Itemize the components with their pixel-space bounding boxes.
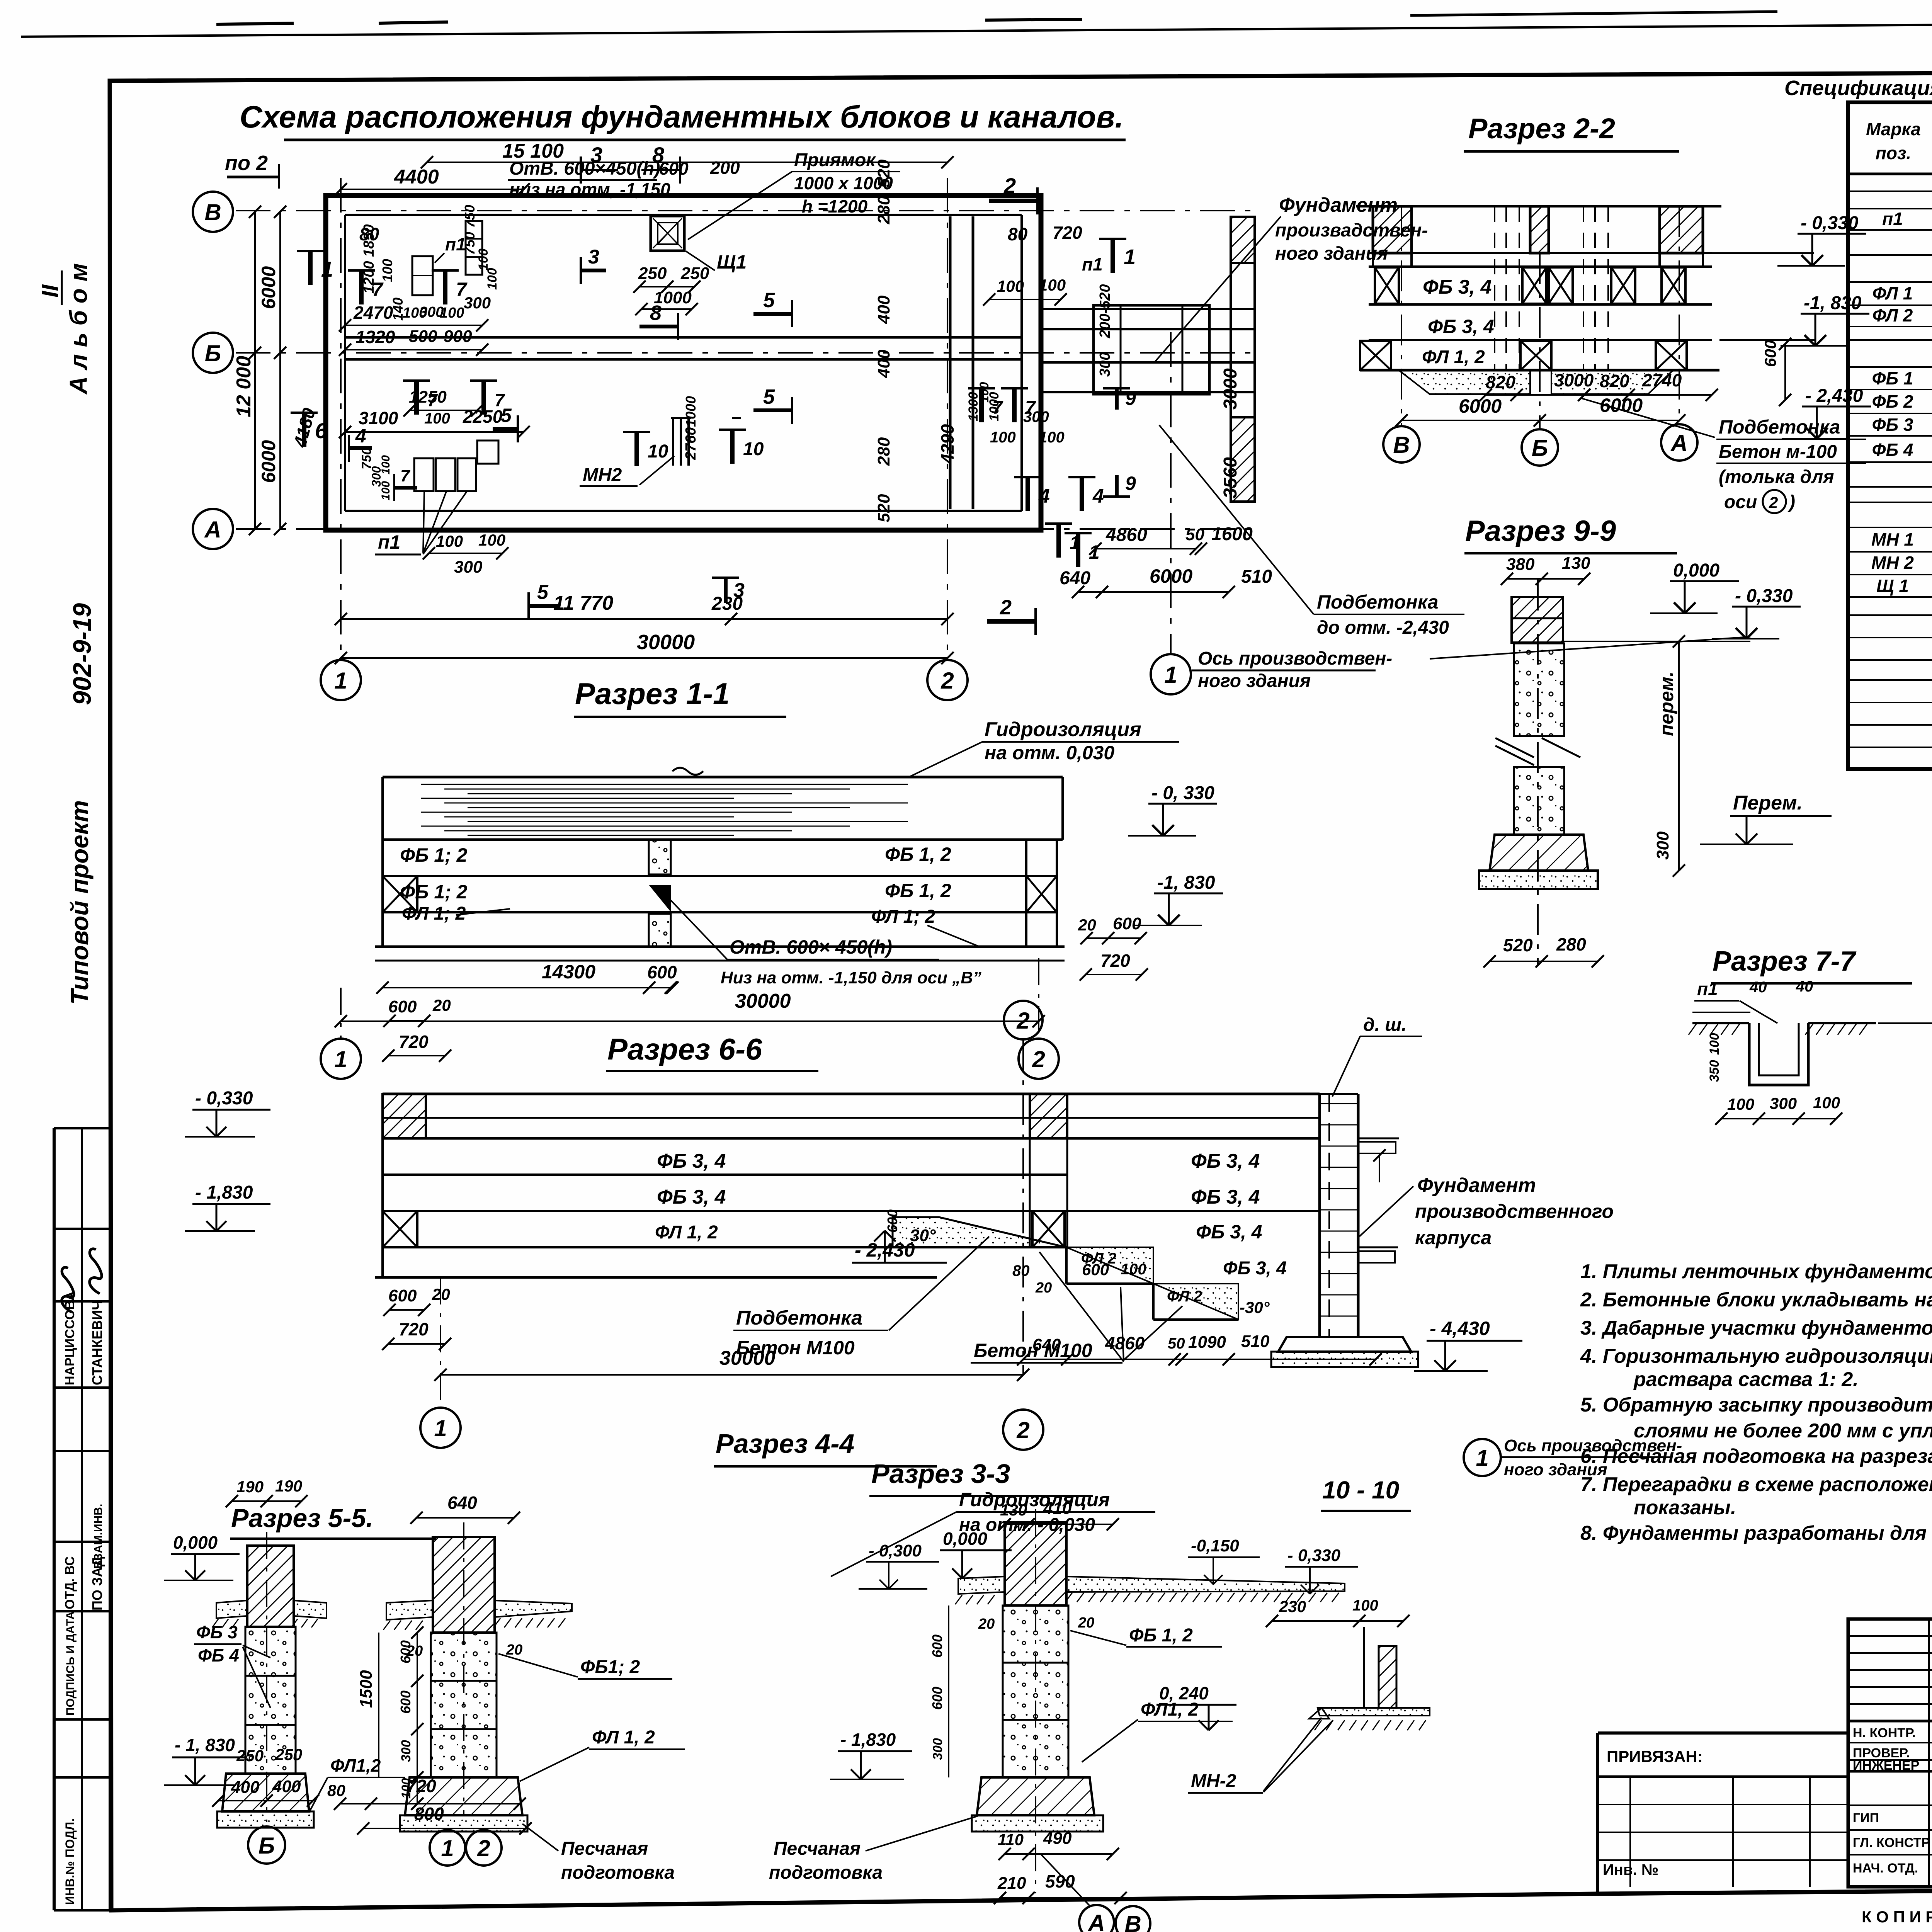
svg-text:Разрез 3-3: Разрез 3-3 <box>871 1459 1010 1489</box>
section 3-3 column <box>1005 1522 1066 1605</box>
section 1-1 mid shaft <box>649 840 671 874</box>
svg-text:Типовой проект: Типовой проект <box>66 800 94 1005</box>
svg-text:5. Обратную засыпку производ: 5. Обратную засыпку производить грунтам … <box>1580 1394 1932 1416</box>
svg-text:410: 410 <box>1043 1499 1072 1518</box>
svg-text:4: 4 <box>1038 485 1050 507</box>
svg-text:350: 350 <box>1707 1060 1722 1082</box>
svg-text:2: 2 <box>477 1835 490 1861</box>
svg-text:Бетон м-100: Бетон м-100 <box>1719 442 1837 462</box>
section 3-3 axis circles A V <box>1079 1905 1114 1932</box>
svg-text:ФБ 3, 4: ФБ 3, 4 <box>657 1186 726 1208</box>
svg-text:100: 100 <box>436 532 463 550</box>
section 10-10 drawing <box>1363 1627 1365 1708</box>
section 1-1 FB rows <box>383 875 1057 877</box>
section 4-4 footing <box>405 1777 522 1815</box>
svg-text:100: 100 <box>1039 429 1065 446</box>
svg-text:190: 190 <box>275 1477 302 1495</box>
svg-text:8: 8 <box>652 143 665 167</box>
svg-text:д. ш.: д. ш. <box>1363 1015 1406 1035</box>
section 9-9 wall column <box>1512 597 1563 643</box>
section 5-5 blocks <box>245 1627 296 1676</box>
section 3-3 left dim ladder <box>948 1605 949 1777</box>
svg-text:- 1,830: - 1,830 <box>840 1730 896 1750</box>
svg-text:10: 10 <box>743 439 764 459</box>
svg-text:карпуса: карпуса <box>1415 1227 1492 1248</box>
svg-text:300: 300 <box>399 1740 413 1762</box>
svg-text:30000: 30000 <box>719 1347 776 1369</box>
svg-text:720: 720 <box>399 1032 429 1052</box>
section 4-4 axis circles 1 2 <box>430 1830 465 1866</box>
svg-text:300: 300 <box>1097 352 1113 377</box>
svg-text:СТАНКЕВИЧ: СТАНКЕВИЧ <box>89 1300 105 1385</box>
plan: middle wall on axis B <box>345 336 1022 339</box>
svg-text:поз.: поз. <box>1876 143 1911 163</box>
svg-text:Марка: Марка <box>1866 119 1921 139</box>
svg-text:250: 250 <box>236 1747 264 1765</box>
section 2-2 FB row 1 <box>1369 303 1712 306</box>
svg-text:ФЛ 1; 2: ФЛ 1; 2 <box>871 906 935 927</box>
plan: interior wall <box>949 216 952 509</box>
plan: building outline <box>326 196 1041 530</box>
svg-text:8: 8 <box>650 301 662 325</box>
svg-text:100: 100 <box>379 481 392 500</box>
svg-text:А л ь б о м: А л ь б о м <box>65 263 92 395</box>
section 6-6 footing bottom <box>1278 1337 1411 1352</box>
svg-text:720: 720 <box>399 1319 429 1339</box>
svg-text:Б: Б <box>205 340 221 366</box>
svg-text:0,000: 0,000 <box>943 1529 988 1549</box>
svg-text:ОтВ. 600×450(h): ОтВ. 600×450(h) <box>509 158 660 179</box>
svg-text:ФБ 1; 2: ФБ 1; 2 <box>400 844 468 866</box>
svg-text:640: 640 <box>447 1493 477 1513</box>
plan: section marks 3 and 8 top <box>581 169 618 171</box>
svg-text:раствара саства 1: 2.: раствара саства 1: 2. <box>1633 1368 1859 1391</box>
svg-text:п1: п1 <box>1082 254 1103 274</box>
plan: axis circle 1 production <box>1151 654 1191 694</box>
svg-text:ФБ 3, 4: ФБ 3, 4 <box>1191 1150 1260 1172</box>
svg-text:2740: 2740 <box>1642 370 1682 390</box>
svg-text:1: 1 <box>334 1046 347 1072</box>
svg-text:подготовка: подготовка <box>561 1862 675 1883</box>
svg-text:6. Песчаная подготовка на: 6. Песчаная подготовка на разрезах 1-1; … <box>1580 1445 1932 1468</box>
svg-text:600: 600 <box>884 1209 900 1233</box>
section 5-5 axis circle B <box>248 1827 285 1864</box>
svg-text:Схема расположения фундаментны: Схема расположения фундаментных блоков и… <box>240 100 1124 134</box>
svg-text:Щ1: Щ1 <box>717 251 747 273</box>
plan: axis circle 1 <box>321 660 361 700</box>
svg-text:250: 250 <box>680 264 709 283</box>
svg-text:190: 190 <box>236 1478 264 1496</box>
svg-text:7: 7 <box>992 398 1003 418</box>
section 2-2 podbetonka <box>1399 370 1530 394</box>
svg-text:Разрез 6-6: Разрез 6-6 <box>607 1032 762 1066</box>
svg-text:-1, 830: -1, 830 <box>1157 872 1215 893</box>
svg-text:до отм. -2,430: до отм. -2,430 <box>1317 617 1449 638</box>
section 1-1 right end <box>1025 840 1027 947</box>
svg-text:ФЛ 1, 2: ФЛ 1, 2 <box>592 1727 655 1748</box>
svg-text:А: А <box>1670 430 1687 456</box>
svg-text:Щ 1: Щ 1 <box>1876 576 1909 596</box>
svg-text:МН 2: МН 2 <box>1871 553 1914 573</box>
svg-text:- 0,330: - 0,330 <box>1735 586 1793 606</box>
svg-text:0,000: 0,000 <box>1673 560 1719 581</box>
svg-text:ИНЖЕНЕР: ИНЖЕНЕР <box>1853 1758 1919 1773</box>
svg-text:80: 80 <box>327 1781 345 1799</box>
svg-text:20: 20 <box>978 1616 995 1632</box>
svg-text:Подбетонка: Подбетонка <box>1719 416 1840 438</box>
svg-text:100: 100 <box>440 305 464 321</box>
svg-text:5: 5 <box>537 581 549 604</box>
section 2-2 dashed formwork lines <box>1494 206 1495 370</box>
svg-text:100: 100 <box>1039 276 1066 294</box>
svg-text:Спецификация к схеме расположе: Спецификация к схеме расположения фундам… <box>1784 77 1932 100</box>
svg-text:4860: 4860 <box>1105 525 1147 545</box>
plan: mark 6 left <box>302 413 306 447</box>
title block: inv table <box>1598 1804 1848 1805</box>
svg-text:МН2: МН2 <box>583 465 622 485</box>
svg-text:9: 9 <box>1125 388 1136 409</box>
svg-text:1320: 1320 <box>355 327 395 347</box>
section 3-3 footing <box>977 1777 1094 1815</box>
svg-text:10: 10 <box>648 441 668 462</box>
svg-text:Разрез 1-1: Разрез 1-1 <box>575 677 730 711</box>
plan: marks 7 left <box>359 270 364 304</box>
svg-text:В: В <box>204 199 221 225</box>
section 6-6 column hatched <box>1030 1094 1067 1138</box>
plan: MN2 channel detail <box>672 418 674 466</box>
svg-text:520: 520 <box>874 159 893 188</box>
plan: axis circle B <box>193 333 233 373</box>
svg-text:ФБ 3, 4: ФБ 3, 4 <box>1191 1186 1260 1208</box>
svg-text:230: 230 <box>1279 1597 1306 1616</box>
svg-text:2: 2 <box>1016 1417 1029 1443</box>
svg-text:100: 100 <box>1707 1033 1722 1055</box>
svg-text:50: 50 <box>1168 1335 1185 1352</box>
section 2-2 FL row <box>1360 369 1719 372</box>
section 5-5 column <box>247 1546 294 1627</box>
svg-text:900: 900 <box>444 327 472 346</box>
svg-text:50: 50 <box>1185 525 1204 544</box>
svg-text:300: 300 <box>930 1738 945 1760</box>
svg-text:0, 240: 0, 240 <box>1159 1683 1209 1703</box>
svg-text:640: 640 <box>1032 1335 1061 1354</box>
svg-text:Разрез 5-5.: Разрез 5-5. <box>231 1503 373 1533</box>
svg-text:200: 200 <box>710 158 740 178</box>
section 6-6 left hatched end <box>383 1094 426 1138</box>
svg-text:100: 100 <box>990 429 1016 446</box>
plan: axis circle 2 <box>927 660 968 700</box>
svg-text:2. Бетонные блоки укладывать: 2. Бетонные блоки укладывать на цементно… <box>1580 1289 1932 1311</box>
svg-text:Разрез 9-9: Разрез 9-9 <box>1465 515 1616 548</box>
svg-text:НАРЦИССОВА: НАРЦИССОВА <box>63 1291 77 1385</box>
svg-text:3. Дабарные участки фундамен: 3. Дабарные участки фундаментов и шпонки… <box>1580 1317 1932 1339</box>
svg-text:100: 100 <box>379 455 392 474</box>
svg-text:производственного: производственного <box>1415 1201 1614 1222</box>
svg-text:5: 5 <box>763 385 775 408</box>
section 6-6 axis circle 2 top <box>1004 1001 1043 1039</box>
svg-text:ГИП: ГИП <box>1853 1811 1879 1825</box>
svg-text:ВЗАМ.ИНВ.: ВЗАМ.ИНВ. <box>92 1504 105 1569</box>
svg-text:Фундамент: Фундамент <box>1417 1174 1536 1197</box>
svg-text:1: 1 <box>434 1415 447 1441</box>
plan: left wall details p1 <box>412 256 433 295</box>
svg-text:4860: 4860 <box>1105 1333 1145 1353</box>
plan: mark 3 top middle <box>581 269 606 272</box>
svg-text:- 1, 830: - 1, 830 <box>175 1735 235 1755</box>
svg-text:Разрез 2-2: Разрез 2-2 <box>1468 112 1615 145</box>
svg-text:100: 100 <box>424 410 450 427</box>
svg-text:250: 250 <box>275 1745 302 1764</box>
section 6-6 right side marks <box>1358 1138 1399 1139</box>
svg-text:ФБ 3, 4: ФБ 3, 4 <box>1423 276 1492 298</box>
section 1-1 axis circles <box>340 988 342 1039</box>
svg-text:слоями не более 200 мм с: слоями не более 200 мм с уплотнением до … <box>1634 1420 1932 1442</box>
section 4-4 column <box>433 1537 495 1633</box>
svg-text:400: 400 <box>874 349 893 378</box>
svg-text:6000: 6000 <box>258 440 279 483</box>
svg-text:750: 750 <box>359 447 374 469</box>
svg-text:ФЛ 2: ФЛ 2 <box>1872 305 1913 325</box>
title block: privyazan box <box>1598 1731 1848 1735</box>
sidebar stamp table <box>54 1127 110 1129</box>
svg-text:600: 600 <box>388 1286 417 1305</box>
svg-text:В: В <box>1393 432 1410 458</box>
svg-text:Б: Б <box>259 1833 275 1859</box>
svg-text:20: 20 <box>432 996 451 1014</box>
svg-text:ФБ 3, 4: ФБ 3, 4 <box>657 1150 726 1172</box>
svg-text:300: 300 <box>1770 1094 1797 1112</box>
svg-text:А: А <box>1087 1910 1105 1932</box>
svg-text:7: 7 <box>400 466 411 485</box>
svg-text:800: 800 <box>414 1804 444 1824</box>
svg-text:-30°: -30° <box>1240 1298 1270 1316</box>
svg-text:1500: 1500 <box>357 1670 376 1708</box>
svg-text:30000: 30000 <box>735 990 791 1012</box>
svg-text:600: 600 <box>388 997 417 1016</box>
svg-text:510: 510 <box>1241 566 1272 587</box>
svg-text:100: 100 <box>476 248 491 270</box>
svg-text:Низ на отм. -1,150 для оси „В”: Низ на отм. -1,150 для оси „В” <box>721 968 981 987</box>
svg-text:ФЛ 1: ФЛ 1 <box>1872 283 1913 303</box>
svg-text:- 1,830: - 1,830 <box>195 1182 253 1203</box>
svg-text:h =1200: h =1200 <box>802 196 867 216</box>
svg-text:130: 130 <box>1562 554 1590 573</box>
svg-text:ФБ 2: ФБ 2 <box>1872 391 1913 412</box>
svg-text:ФЛ 1; 2: ФЛ 1; 2 <box>402 903 466 924</box>
svg-text:3000: 3000 <box>1220 368 1241 410</box>
svg-text:6000: 6000 <box>1459 395 1502 417</box>
svg-text:380: 380 <box>1506 555 1535 574</box>
svg-text:20: 20 <box>1035 1280 1052 1296</box>
svg-text:20: 20 <box>506 1642 522 1658</box>
svg-text:3: 3 <box>588 246 599 268</box>
svg-text:400: 400 <box>231 1778 260 1797</box>
svg-text:п1: п1 <box>378 531 400 553</box>
svg-text:оси: оси <box>1724 492 1757 512</box>
title block: signature table <box>1848 1619 1932 1887</box>
svg-text:1: 1 <box>441 1835 454 1861</box>
svg-text:А: А <box>204 517 221 543</box>
svg-text:-0,150: -0,150 <box>1191 1536 1239 1555</box>
svg-text:4: 4 <box>1092 485 1104 507</box>
svg-text:ИНВ.№ ПОДЛ.: ИНВ.№ ПОДЛ. <box>63 1818 77 1905</box>
plan: marks 9 <box>1115 388 1119 410</box>
svg-text:300: 300 <box>464 294 491 312</box>
svg-text:4290: 4290 <box>937 424 957 464</box>
svg-text:1. Плиты ленточных фундамент: 1. Плиты ленточных фундаментов укладыват… <box>1580 1260 1932 1283</box>
svg-text:подготовка: подготовка <box>769 1862 883 1883</box>
svg-text:ФБ 1; 2: ФБ 1; 2 <box>400 881 468 903</box>
svg-text:по 2: по 2 <box>225 151 268 175</box>
svg-text:ФБ 4: ФБ 4 <box>198 1645 239 1665</box>
svg-text:ФБ 3, 4: ФБ 3, 4 <box>1196 1221 1262 1243</box>
svg-text:1: 1 <box>1124 245 1136 269</box>
section 4-4 left dims <box>378 1633 379 1777</box>
svg-text:7: 7 <box>372 279 384 300</box>
svg-text:100: 100 <box>478 531 505 549</box>
section 2-2 cut walls hatched <box>1373 206 1412 253</box>
svg-text:520: 520 <box>874 494 893 522</box>
svg-text:2: 2 <box>1000 596 1012 619</box>
svg-text:Инв. №: Инв. № <box>1603 1861 1658 1878</box>
svg-text:ПРИВЯЗАН:: ПРИВЯЗАН: <box>1607 1747 1703 1765</box>
svg-text:100: 100 <box>1727 1095 1754 1113</box>
svg-text:II: II <box>37 284 63 298</box>
svg-text:Гидроизоляция: Гидроизоляция <box>959 1489 1110 1510</box>
svg-text:600: 600 <box>929 1634 945 1658</box>
svg-text:300: 300 <box>454 558 483 577</box>
svg-text:ФБ 3: ФБ 3 <box>196 1622 238 1642</box>
svg-text:ФЛ 1, 2: ФЛ 1, 2 <box>1422 347 1485 367</box>
svg-text:- 0,330: - 0,330 <box>1287 1546 1341 1565</box>
svg-text:100: 100 <box>1352 1597 1378 1614</box>
svg-text:Разрез 7-7: Разрез 7-7 <box>1713 946 1857 977</box>
svg-text:100: 100 <box>997 277 1024 295</box>
section 1-1 slab band <box>383 776 1063 779</box>
svg-text:2: 2 <box>1032 1046 1045 1072</box>
svg-text:600: 600 <box>647 962 677 982</box>
svg-text:750 750: 750 750 <box>462 205 478 255</box>
svg-text:400: 400 <box>874 295 893 324</box>
svg-text:Перем.: Перем. <box>1733 792 1803 814</box>
svg-text:Ось производствен-: Ось производствен- <box>1198 648 1392 669</box>
svg-text:Б: Б <box>1532 435 1548 461</box>
svg-text:ФБ 1, 2: ФБ 1, 2 <box>885 880 951 901</box>
svg-text:6: 6 <box>315 418 327 443</box>
svg-text:на отм. 0,030: на отм. 0,030 <box>985 742 1114 764</box>
plan: bottom-right dims <box>1076 533 1080 567</box>
svg-text:110: 110 <box>998 1830 1024 1849</box>
svg-text:250: 250 <box>638 264 667 283</box>
svg-text:1: 1 <box>1164 662 1177 688</box>
svg-text:МН 1: МН 1 <box>1871 529 1914 549</box>
svg-text:Песчаная: Песчаная <box>561 1838 648 1859</box>
svg-text:100: 100 <box>1121 1261 1146 1278</box>
plan: axis lines <box>236 210 1252 211</box>
svg-text:показаны.: показаны. <box>1634 1497 1736 1519</box>
svg-text:2: 2 <box>940 668 954 694</box>
svg-text:720: 720 <box>406 1776 436 1796</box>
svg-text:300: 300 <box>1653 831 1672 860</box>
svg-text:ГЛ. КОНСТР: ГЛ. КОНСТР <box>1853 1835 1930 1850</box>
plan: marks 8 and 5 middle <box>639 325 678 328</box>
svg-text:МН-2: МН-2 <box>1191 1771 1236 1791</box>
svg-text:2: 2 <box>1769 493 1778 512</box>
svg-text:В: В <box>1124 1911 1141 1932</box>
section 9-9 vertical dims <box>1678 641 1680 871</box>
svg-text:40: 40 <box>1796 978 1813 995</box>
svg-text:600: 600 <box>398 1640 413 1663</box>
svg-text:500: 500 <box>409 327 437 346</box>
svg-text:7. Перегарадки в схеме рас: 7. Перегарадки в схеме расположения фунд… <box>1580 1473 1932 1496</box>
plan: mark 1 right bottom <box>1056 524 1061 558</box>
plan: axis circle V <box>193 192 233 232</box>
section 6-6 steps down right <box>893 1217 1066 1247</box>
svg-text:Песчаная: Песчаная <box>774 1838 861 1859</box>
svg-text:ФЛ 1, 2: ФЛ 1, 2 <box>655 1222 718 1243</box>
svg-text:1: 1 <box>1070 533 1080 553</box>
section 7-7 channel <box>1692 1022 1749 1024</box>
plan: marks 7 right <box>979 388 984 422</box>
svg-text:Разрез 4-4: Разрез 4-4 <box>716 1429 854 1459</box>
svg-text:2470: 2470 <box>353 303 393 323</box>
svg-text:ФЛ1,2: ФЛ1,2 <box>330 1755 381 1776</box>
svg-text:3560: 3560 <box>1220 457 1241 498</box>
plan: left vertical dim 12000/6000 <box>254 212 256 529</box>
svg-text:820: 820 <box>1600 371 1629 391</box>
svg-text:1090: 1090 <box>1188 1333 1226 1352</box>
svg-text:600: 600 <box>1761 340 1779 367</box>
svg-text:ОтВ. 600× 450(h): ОтВ. 600× 450(h) <box>730 936 892 958</box>
svg-text:2: 2 <box>1016 1008 1029 1034</box>
svg-text:14300: 14300 <box>542 961 595 983</box>
svg-text:130: 130 <box>1000 1501 1027 1519</box>
section 2-2 axis circles <box>1401 206 1402 425</box>
svg-text:ФБ 3: ФБ 3 <box>1872 415 1913 435</box>
svg-text:п1: п1 <box>1697 979 1718 999</box>
plan: mark 4 left <box>349 446 372 450</box>
svg-text:3000: 3000 <box>1554 370 1594 390</box>
plan: mark 2 top <box>989 199 1037 203</box>
svg-text:(толька для: (толька для <box>1719 467 1834 487</box>
sidebar signatures <box>62 1267 74 1312</box>
svg-text:- 0, 330: - 0, 330 <box>1151 783 1214 803</box>
svg-text:-1, 830: -1, 830 <box>1804 293 1862 313</box>
svg-text:280: 280 <box>874 437 893 466</box>
svg-text:400: 400 <box>272 1777 301 1796</box>
svg-text:4. Горизонтальную гидроизол: 4. Горизонтальную гидроизоляцию выполнят… <box>1580 1345 1932 1367</box>
svg-text:- 4,430: - 4,430 <box>1430 1318 1490 1339</box>
section 6-6 right wall <box>1318 1094 1321 1337</box>
svg-text:2760: 2760 <box>683 427 699 460</box>
svg-text:НАЧ. ОТД.: НАЧ. ОТД. <box>1853 1861 1918 1876</box>
svg-text:- 0,300: - 0,300 <box>869 1541 922 1560</box>
svg-text:10 - 10: 10 - 10 <box>1322 1476 1399 1504</box>
svg-text:ФБ 4: ФБ 4 <box>1872 440 1913 460</box>
svg-text:720: 720 <box>1053 223 1082 243</box>
plan: mark 2 bottom <box>987 619 1036 624</box>
svg-text:600: 600 <box>1113 914 1141 933</box>
plan: production building wall strip <box>1231 217 1255 263</box>
svg-text:80: 80 <box>1008 224 1028 244</box>
svg-text:- 2,430: - 2,430 <box>1805 386 1863 406</box>
svg-text:7: 7 <box>1025 398 1036 418</box>
svg-text:1600: 1600 <box>1211 524 1253 544</box>
svg-text:520: 520 <box>1503 935 1533 955</box>
section 2-2 top slab <box>1356 205 1721 207</box>
svg-text:1: 1 <box>1089 541 1100 563</box>
svg-text:11 770: 11 770 <box>553 592 613 614</box>
